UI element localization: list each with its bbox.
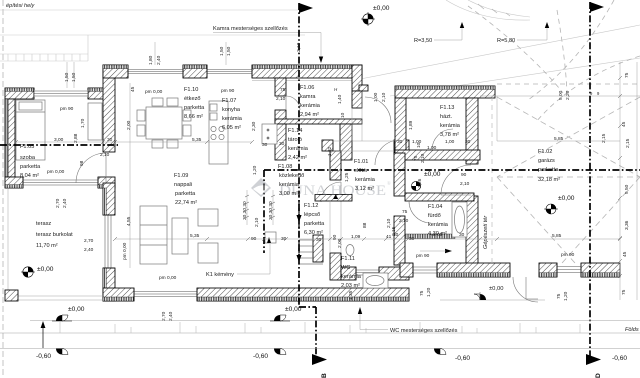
section line A left [0, 144, 118, 146]
wall step kamra [359, 85, 368, 91]
svg-text:8,04 m²: 8,04 m² [20, 173, 39, 179]
svg-text:F1.10: F1.10 [184, 87, 198, 93]
svg-text:parketta: parketta [175, 191, 196, 197]
driveway arcs dashed [468, 6, 563, 93]
wall main top seg3 [252, 65, 362, 78]
terrain line 2 [0, 332, 640, 334]
svg-text:R=3,50: R=3,50 [414, 38, 432, 44]
grass ticks [60, 322, 580, 333]
svg-text:1,00: 1,00 [373, 92, 379, 102]
svg-text:5,50: 5,50 [624, 184, 630, 194]
svg-text:5,35: 5,35 [190, 233, 200, 239]
svg-text:75: 75 [624, 72, 630, 78]
svg-text:F1.14: F1.14 [288, 128, 302, 134]
svg-text:2,88: 2,88 [73, 133, 79, 143]
svg-text:2,20: 2,20 [565, 90, 571, 100]
WC fixtures [346, 245, 388, 289]
svg-text:WC: WC [341, 265, 350, 271]
flag B bottom [312, 354, 327, 365]
dim line right edge vertical [619, 62, 621, 300]
door front entry [441, 194, 471, 196]
bathtub furdo [452, 202, 467, 237]
wall szoba bottom seg2 [98, 177, 115, 188]
svg-text:±0,00: ±0,00 [37, 266, 54, 273]
svg-text:konyha: konyha [222, 107, 241, 113]
svg-text:pm 90: pm 90 [221, 88, 235, 94]
door F1.13 [432, 129, 453, 150]
svg-text:30: 30 [107, 137, 113, 143]
driveway curve solid light [446, 0, 530, 20]
svg-text:Gépészeti tér: Gépészeti tér [483, 215, 489, 249]
svg-text:30: 30 [281, 236, 287, 242]
svg-text:90: 90 [461, 172, 467, 178]
wall F1.13 bottom [395, 150, 480, 160]
wall WC/furdo divider column [394, 153, 405, 196]
wall szoba top seg2 [88, 88, 104, 99]
svg-text:kerámia: kerámia [300, 103, 321, 109]
chimney K1 [265, 232, 276, 243]
wall kamra right / F1.14 right [352, 91, 362, 108]
wall F1.13 right / garage wall column [466, 98, 478, 164]
dim line szoba left vertical [66, 62, 68, 88]
carport dashed X [497, 97, 640, 263]
svg-text:2,00: 2,00 [126, 120, 132, 130]
svg-text:kerámia: kerámia [440, 123, 461, 129]
room F1.09 nappali [174, 173, 197, 206]
svg-text:-0,60: -0,60 [455, 355, 470, 362]
svg-text:1,80: 1,80 [148, 55, 154, 65]
svg-text:1,50: 1,50 [226, 46, 232, 56]
rotated dims [55, 42, 631, 321]
svg-text:30: 30 [459, 232, 465, 238]
svg-text:étkező: étkező [184, 96, 200, 102]
svg-text:parketta: parketta [20, 164, 41, 170]
svg-text:10: 10 [416, 142, 422, 148]
stairs treads [299, 240, 323, 264]
wall garage column below front door [466, 196, 478, 265]
svg-text:30: 30 [316, 237, 322, 243]
svg-text:6,05 m²: 6,05 m² [222, 125, 241, 131]
svg-text:pm 0,00: pm 0,00 [47, 169, 65, 175]
svg-text:1,26: 1,26 [417, 178, 423, 188]
svg-text:pm 0,00: pm 0,00 [145, 89, 163, 95]
room F1.02 garazs [538, 149, 560, 183]
svg-text:30,30,30: 30,30,30 [268, 201, 274, 220]
flag D top [590, 2, 604, 12]
svg-text:±0,00: ±0,00 [489, 286, 503, 292]
window WC bottom [356, 267, 379, 280]
svg-text:75: 75 [556, 293, 562, 299]
svg-text:8,66 m²: 8,66 m² [184, 114, 203, 120]
svg-text:Kamra mesterséges szellőzés: Kamra mesterséges szellőzés [213, 26, 288, 32]
svg-text:2,42 m²: 2,42 m² [288, 155, 307, 161]
svg-text:F1.01: F1.01 [354, 159, 368, 165]
furdo bottom half wall [405, 234, 455, 239]
section line A vertical jog [263, 170, 265, 253]
svg-text:szoba: szoba [20, 155, 36, 161]
dim line nappali chain y=239 [115, 238, 620, 240]
svg-text:3,00 m²: 3,00 m² [279, 191, 298, 197]
svg-text:1,40: 1,40 [337, 94, 343, 104]
window konyha top [207, 65, 252, 78]
wall nappali-wc band [315, 195, 352, 202]
svg-text:1,70: 1,70 [80, 118, 86, 128]
svg-text:±0,00: ±0,00 [558, 195, 575, 202]
room F1.13 hazt [440, 105, 461, 138]
svg-text:-0,60: -0,60 [612, 355, 627, 362]
dim line garage 5,85 top [497, 140, 620, 142]
faint site line horizontal [0, 34, 305, 36]
svg-text:2,15: 2,15 [601, 133, 607, 143]
wall main left between window and bottom [103, 268, 115, 301]
room F1.05 szoba [20, 144, 41, 179]
room F1.07 konyha [222, 98, 243, 131]
svg-text:F1.09: F1.09 [174, 173, 188, 179]
svg-text:2,00: 2,00 [337, 238, 343, 248]
svg-text:3,78 m²: 3,78 m² [440, 132, 459, 138]
wall bottom-right band seg1a [400, 263, 413, 277]
svg-text:2,70: 2,70 [55, 198, 61, 208]
svg-text:90: 90 [251, 236, 257, 242]
svg-text:1,00: 1,00 [427, 145, 437, 151]
sofa [140, 206, 218, 264]
svg-text:pm 90: pm 90 [561, 252, 575, 258]
faint diagonal site lines top right [355, 25, 640, 80]
terrace corner pillar [5, 290, 18, 301]
svg-text:F1.11: F1.11 [341, 256, 355, 262]
svg-text:2,10: 2,10 [381, 92, 387, 102]
svg-text:F1.05: F1.05 [20, 144, 34, 150]
terrain line 3 [0, 348, 640, 350]
svg-text:1,25: 1,25 [344, 172, 350, 182]
svg-text:2,10: 2,10 [460, 181, 470, 187]
svg-text:3,12 m²: 3,12 m² [355, 186, 374, 192]
room F1.06 kamra [300, 85, 321, 118]
svg-text:fürdő: fürdő [428, 213, 441, 219]
svg-text:88: 88 [362, 222, 368, 228]
svg-text:WC mesterséges szellőzés: WC mesterséges szellőzés [390, 328, 458, 334]
wall corridor band left piece [322, 140, 333, 151]
svg-text:kerámia: kerámia [341, 274, 362, 280]
door threshold lines entry band [333, 91, 394, 151]
kitchen counter [209, 101, 228, 164]
dining table [137, 98, 191, 148]
terrace edge left [7, 188, 9, 300]
wall right wing top band [409, 151, 474, 159]
svg-text:2,40: 2,40 [168, 311, 174, 321]
terrace edge bottom [8, 299, 103, 301]
door szoba leaf+arc [105, 153, 107, 183]
svg-text:6,30 m²: 6,30 m² [304, 230, 323, 236]
svg-text:4,55: 4,55 [126, 216, 132, 226]
stair arrows on B line [296, 215, 301, 222]
wall szoba left [5, 99, 15, 177]
svg-text:22,74 m²: 22,74 m² [175, 200, 197, 206]
eaves dashed line garage [497, 83, 640, 85]
level marker entry [474, 292, 486, 300]
svg-text:2,10: 2,10 [100, 152, 110, 158]
window szoba top [34, 88, 88, 99]
svg-text:±0,00: ±0,00 [424, 171, 441, 178]
wardrobe szoba [88, 103, 102, 140]
insulation strip szoba top [5, 88, 34, 91]
svg-text:1,32: 1,32 [327, 146, 333, 156]
svg-text:®: ® [387, 181, 391, 187]
svg-text:±0,00: ±0,00 [285, 306, 302, 313]
svg-text:10: 10 [340, 112, 346, 118]
svg-text:2,10: 2,10 [420, 153, 426, 163]
svg-text:kamra: kamra [300, 94, 316, 100]
svg-text:75: 75 [419, 290, 425, 296]
svg-text:30: 30 [279, 141, 285, 147]
svg-text:házt.: házt. [440, 114, 453, 120]
site boundary dashed line left [2, 0, 4, 378]
door corridor arc1 [365, 97, 391, 123]
wall main left column [103, 65, 115, 152]
svg-text:1,09: 1,09 [351, 234, 361, 240]
wall kamra bottom [275, 119, 362, 124]
svg-text:F1.06: F1.06 [300, 85, 314, 91]
svg-text:pm 0,00: pm 0,00 [122, 242, 128, 260]
room F1.11 WC [341, 256, 362, 289]
wall main bottom seg2 [197, 288, 409, 301]
wall F1.13 left [395, 98, 406, 160]
wall stair stub [313, 235, 323, 262]
window szoba bottom [23, 177, 98, 188]
svg-text:2,30: 2,30 [251, 121, 257, 131]
svg-text:terasz: terasz [36, 221, 51, 227]
wall F1.14 bottom [275, 124, 286, 160]
door corridor arc2 [375, 140, 400, 165]
dim line top mid vertical [154, 42, 156, 65]
svg-text:2,10: 2,10 [399, 218, 409, 224]
wall F1.13 top [395, 86, 495, 98]
room F1.04 furdo [428, 204, 449, 237]
svg-text:1,50: 1,50 [71, 72, 77, 82]
room F1.12 lepcso [304, 203, 325, 236]
svg-text:pm 0,00: pm 0,00 [159, 275, 177, 281]
svg-text:30: 30 [262, 142, 268, 148]
svg-text:2,10: 2,10 [254, 217, 260, 227]
svg-text:2,40: 2,40 [84, 247, 94, 253]
svg-text:kerámia: kerámia [288, 146, 309, 152]
room F1.14 tarolo [288, 128, 309, 161]
svg-text:kerámia: kerámia [355, 177, 376, 183]
svg-text:30,30,30: 30,30,30 [242, 201, 248, 220]
room terasz [36, 221, 73, 249]
svg-text:1,50: 1,50 [64, 72, 70, 82]
window nappali bottom [134, 288, 197, 301]
leader K1 [237, 273, 270, 275]
svg-text:1,00: 1,00 [445, 139, 455, 145]
svg-text:D: D [595, 373, 602, 378]
svg-text:1,35: 1,35 [348, 290, 354, 300]
svg-text:2,70: 2,70 [84, 238, 94, 244]
svg-text:lépcső: lépcső [304, 212, 320, 218]
svg-text:parketta: parketta [538, 167, 559, 173]
svg-text:3,36: 3,36 [624, 220, 630, 230]
svg-text:2,00: 2,00 [433, 232, 443, 238]
svg-text:5,00: 5,00 [558, 90, 564, 100]
room F1.01 eloter [354, 159, 376, 192]
svg-text:5,35: 5,35 [192, 137, 202, 143]
door furdo [409, 201, 431, 223]
door kamra [286, 96, 300, 110]
svg-text:Földs: Földs [625, 327, 639, 333]
section line A right [264, 169, 640, 171]
wall szoba top seg1 [5, 88, 34, 99]
measure arrow left [42, 324, 44, 348]
door garage exit [525, 277, 527, 299]
svg-text:B: B [321, 373, 328, 378]
wall bottom-right band seg3 [581, 263, 620, 277]
svg-text:2,94 m²: 2,94 m² [300, 112, 319, 118]
svg-text:2,40: 2,40 [62, 198, 68, 208]
window bottom-right [557, 263, 581, 277]
wall furdo top [405, 193, 474, 201]
carport outline [480, 96, 640, 141]
svg-text:F1.13: F1.13 [440, 105, 454, 111]
svg-text:kerámia: kerámia [279, 182, 300, 188]
svg-text:±0,00: ±0,00 [68, 306, 85, 313]
window nappali left (vertical) [103, 215, 115, 268]
svg-text:építési hely: építési hely [6, 3, 35, 9]
svg-text:1,89: 1,89 [408, 120, 414, 130]
terrain line 1 [30, 320, 640, 322]
room F1.08 kozlekedo [278, 164, 304, 197]
svg-text:K1 kémény: K1 kémény [206, 272, 234, 278]
svg-text:F1.04: F1.04 [428, 204, 442, 210]
svg-text:F1.12: F1.12 [304, 203, 318, 209]
bed szoba [16, 100, 45, 160]
svg-text:3,00: 3,00 [54, 137, 64, 143]
svg-text:F1.07: F1.07 [222, 98, 236, 104]
wall main top seg1 [103, 65, 128, 78]
window bottom-right wing [413, 263, 437, 277]
svg-text:-0,60: -0,60 [253, 353, 268, 360]
entry arrow [445, 249, 452, 253]
ground line entry [440, 299, 545, 301]
appliance konyha [262, 124, 277, 144]
wall bottom-right band seg1b [437, 263, 510, 277]
flag D bottom [586, 354, 601, 365]
svg-text:45: 45 [622, 251, 628, 257]
dim line etkezo vertical [129, 83, 131, 268]
wall bottom-right band seg2 [539, 263, 557, 277]
room F1.10 etkezo [184, 87, 205, 120]
svg-text:1,50: 1,50 [219, 46, 225, 56]
svg-text:32,18 m²: 32,18 m² [538, 177, 560, 183]
svg-text:pm 90: pm 90 [416, 253, 430, 259]
section line D vertical [589, 2, 591, 356]
svg-text:F1.02: F1.02 [538, 149, 552, 155]
svg-text:2,03 m²: 2,03 m² [341, 283, 360, 289]
wall main top seg2 [183, 65, 207, 78]
faint fence strip with ticks [0, 54, 88, 61]
svg-text:garázs: garázs [538, 158, 555, 164]
svg-text:parketta: parketta [304, 221, 325, 227]
wall main bottom seg1 [103, 288, 134, 301]
door WC-kozlekedo [321, 182, 341, 202]
svg-text:1,20: 1,20 [563, 291, 569, 301]
svg-text:kerámia: kerámia [222, 116, 243, 122]
svg-text:2,15: 2,15 [625, 138, 631, 148]
svg-text:-0,60: -0,60 [36, 353, 51, 360]
svg-text:±0,00: ±0,00 [373, 5, 390, 12]
svg-text:75: 75 [413, 155, 419, 161]
dim line szoba-etkezo horizontal [15, 141, 252, 143]
svg-text:terasz burkolat: terasz burkolat [36, 232, 73, 238]
svg-text:30: 30 [397, 139, 403, 145]
svg-text:11,70 m²: 11,70 m² [36, 243, 58, 249]
dim line stair tread chains [246, 190, 248, 225]
svg-text:45: 45 [130, 86, 136, 92]
svg-text:nappali: nappali [174, 182, 192, 188]
svg-text:5,85: 5,85 [552, 233, 562, 239]
wall szoba bottom seg1 [5, 177, 23, 188]
wall WC left column [330, 151, 341, 180]
svg-text:30: 30 [465, 139, 471, 145]
window etkezo top [128, 65, 183, 78]
svg-text:2,70: 2,70 [161, 311, 167, 321]
svg-text:előtér: előtér [354, 168, 368, 174]
svg-text:F1.08: F1.08 [278, 164, 292, 170]
svg-text:30: 30 [409, 236, 415, 242]
svg-text:5,85: 5,85 [554, 136, 564, 142]
svg-text:parketta: parketta [184, 105, 205, 111]
section line B vertical [298, 3, 300, 307]
svg-text:2,10: 2,10 [386, 218, 392, 228]
svg-text:tároló: tároló [288, 137, 302, 143]
svg-text:2,40: 2,40 [156, 55, 162, 65]
svg-text:45: 45 [621, 121, 627, 127]
svg-text:75: 75 [621, 289, 627, 295]
svg-text:R=5,80: R=5,80 [497, 38, 515, 44]
svg-text:kerámia: kerámia [428, 222, 449, 228]
svg-text:75: 75 [402, 209, 408, 215]
svg-text:98: 98 [79, 160, 85, 166]
wall main left below szoba door [103, 183, 115, 215]
svg-text:41: 41 [386, 234, 392, 240]
wall kamra left [275, 78, 286, 96]
svg-text:2,10: 2,10 [276, 96, 286, 102]
svg-text:1,20: 1,20 [252, 165, 258, 175]
wall WC bottom band [341, 267, 356, 280]
svg-text:2,10: 2,10 [296, 42, 302, 52]
wall corridor band mid piece [394, 140, 409, 153]
svg-text:1,20: 1,20 [426, 287, 432, 297]
svg-text:pm 90: pm 90 [60, 106, 74, 112]
flag B top [299, 3, 313, 13]
svg-text:közlekedő: közlekedő [279, 173, 304, 179]
svg-text:75: 75 [280, 87, 286, 93]
wall top right corner stub [352, 65, 362, 91]
